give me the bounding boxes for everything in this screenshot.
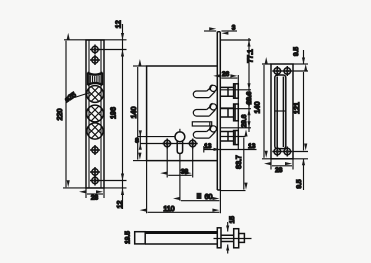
svg-text:12: 12 (115, 20, 122, 28)
dim 13 line (204, 146, 257, 153)
svg-text:13: 13 (248, 143, 256, 150)
svg-text:220: 220 (57, 109, 64, 121)
second plate cross section (234, 229, 239, 248)
dim 28 right view (271, 159, 293, 170)
cylinder hole 2 (hatched circle) (80, 103, 109, 125)
svg-text:29.6: 29.6 (241, 114, 248, 127)
cylinder centerline horizontal (138, 136, 175, 138)
hook bolt 2 (193, 103, 216, 116)
svg-text:26: 26 (222, 71, 230, 78)
arrow down to y180.5 (121, 174, 124, 181)
dim chain line 12/196/12 (122, 24, 124, 209)
slot rounded (275, 75, 286, 149)
svg-text:196: 196 (111, 107, 118, 119)
cylinder hole 3 (hatched circle) (80, 120, 109, 142)
slot middle line (275, 110, 286, 112)
bolt head between plates (221, 235, 234, 241)
screw hole bottom 1 (90, 167, 100, 177)
cylinder fixing screw right (188, 139, 198, 149)
left view: faceplate front outline (86, 40, 104, 188)
chain dim line 77.1 / 28.6 / 29.6 (248, 38, 250, 132)
svg-text:121: 121 (294, 102, 301, 114)
dim 83.7 (220, 137, 245, 191)
svg-text:38: 38 (181, 169, 189, 176)
dim 26 (221, 75, 238, 150)
svg-text:12: 12 (117, 201, 124, 209)
svg-text:28.6: 28.6 (246, 91, 253, 104)
svg-text:19.5: 19.5 (124, 231, 131, 244)
svg-text:110: 110 (163, 206, 174, 213)
faceplate cross section (217, 228, 221, 248)
svg-text:3: 3 (232, 24, 236, 31)
bolt 2 shaft and head (220, 104, 238, 121)
dim 110 (147, 161, 221, 214)
latch opening hatched rect (87, 73, 102, 85)
dim 8 (139, 131, 141, 150)
svg-text:28: 28 (275, 167, 283, 174)
dim 140 middle (133, 66, 147, 161)
bolt 3 shaft and head (220, 131, 238, 145)
hook bolt 3 (193, 125, 216, 138)
screw right view tl (272, 66, 282, 76)
screw hole top 1 (90, 45, 100, 55)
lock case outline (147, 66, 218, 161)
chain dim right: ext top (221, 39, 251, 41)
svg-text:9.5: 9.5 (296, 179, 303, 188)
svg-text:140: 140 (255, 102, 262, 114)
screw hole top 2 (90, 55, 100, 65)
arrow down to y40 (121, 33, 124, 40)
dim B60 (180, 154, 220, 201)
bolt head tip (239, 234, 245, 243)
svg-text:15: 15 (229, 216, 236, 224)
dim 28 left view (86, 188, 104, 198)
arrow up to y49.5 (121, 50, 124, 57)
dim 220 (65, 41, 67, 187)
bolt bar (145, 232, 217, 244)
plate outline (271, 64, 293, 159)
dim 9.5 bottom (303, 159, 305, 190)
bolt centerline ext 3 (220, 127, 251, 129)
bolt 1 shaft and head (220, 84, 238, 98)
svg-text:13: 13 (204, 143, 212, 150)
phi25 leader (75, 93, 91, 98)
middle flat bar (192, 122, 211, 126)
cylinder fixing screw left (162, 139, 172, 149)
faceplate inner edge lines (89, 40, 101, 188)
screw hole middle (90, 145, 100, 155)
svg-text:28: 28 (91, 195, 99, 202)
svg-text:8: 8 (135, 138, 139, 145)
cylinder hole 1 (hatched circle) (80, 83, 109, 105)
arrow up to y188 (121, 188, 124, 195)
svg-text:77.1: 77.1 (248, 49, 255, 63)
euro cylinder (175, 129, 185, 154)
bolt tail cap (135, 232, 146, 244)
centerline bottom view (214, 238, 252, 240)
dim 38 (167, 148, 193, 178)
dim 15 (227, 222, 229, 254)
dim 3 (faceplate thickness) (204, 30, 237, 32)
dim 140 right view (263, 65, 265, 158)
bolt centerline ext 1 (220, 89, 251, 91)
screw right view bl (272, 147, 282, 157)
svg-text:83.7: 83.7 (236, 155, 243, 169)
screw right view br (282, 147, 292, 157)
dim 121 (303, 72, 305, 151)
svg-text:60: 60 (205, 194, 213, 201)
hook bolt 1 (193, 85, 216, 98)
screw hole bottom 2 (90, 176, 100, 186)
slot inner lines (277, 77, 283, 148)
screw right view tr (282, 66, 292, 76)
extension lines left view (63, 40, 127, 188)
faceplate side view (217, 32, 220, 190)
bolt centerline ext 2 (220, 108, 251, 110)
dim 9.5 top (303, 50, 305, 64)
screw centerline (140, 143, 196, 145)
right view extension lines (262, 64, 308, 159)
svg-text:140: 140 (131, 107, 138, 119)
svg-text:9.5: 9.5 (293, 47, 300, 56)
